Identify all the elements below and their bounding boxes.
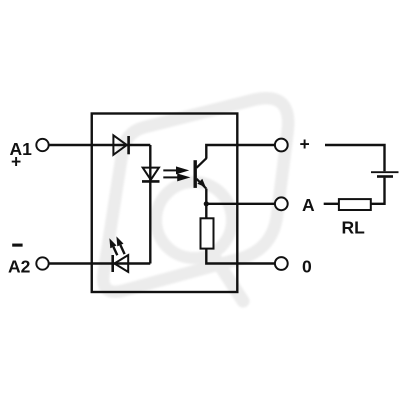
wire emitter down to node and resistor xyxy=(205,189,207,219)
wire collector to + terminal xyxy=(206,145,274,158)
terminal A1 xyxy=(36,139,48,151)
light arrows to phototransistor xyxy=(163,167,188,181)
svg-text:A: A xyxy=(302,195,315,215)
wire + terminal to battery xyxy=(325,145,385,171)
battery cell xyxy=(371,172,399,176)
phototransistor Q1 xyxy=(194,158,207,189)
resistor (inner) xyxy=(201,218,214,248)
diode D1 protection xyxy=(113,135,128,155)
wire vertical LED column xyxy=(149,145,151,264)
load resistor RL xyxy=(339,199,371,210)
wire resistor to 0 terminal xyxy=(206,249,274,264)
node junction dot xyxy=(204,201,209,206)
terminal + xyxy=(275,139,288,152)
svg-text:RL: RL xyxy=(342,218,366,238)
svg-text:0: 0 xyxy=(302,256,312,276)
circuit wires xyxy=(49,114,385,293)
wire node to A terminal xyxy=(206,203,274,205)
opto emitter LED xyxy=(142,168,160,182)
terminal A xyxy=(275,197,288,210)
watermark logo tail xyxy=(215,258,243,301)
watermark logo ring xyxy=(103,98,288,292)
terminal A2 xyxy=(36,257,48,269)
indicator LED light arrows xyxy=(109,236,124,255)
terminal 0 xyxy=(275,257,288,270)
indicator LED xyxy=(113,255,129,272)
wire A2 row xyxy=(49,262,150,264)
watermark logo circle xyxy=(156,182,232,258)
svg-text:+: + xyxy=(300,134,310,154)
wire A1 row xyxy=(50,144,151,146)
component box outline xyxy=(92,114,238,293)
label - (input polarity) xyxy=(12,244,22,247)
svg-text:+: + xyxy=(11,151,21,171)
wire battery to RL xyxy=(371,178,385,204)
wire RL to A terminal xyxy=(324,203,339,205)
svg-text:A2: A2 xyxy=(8,257,31,277)
